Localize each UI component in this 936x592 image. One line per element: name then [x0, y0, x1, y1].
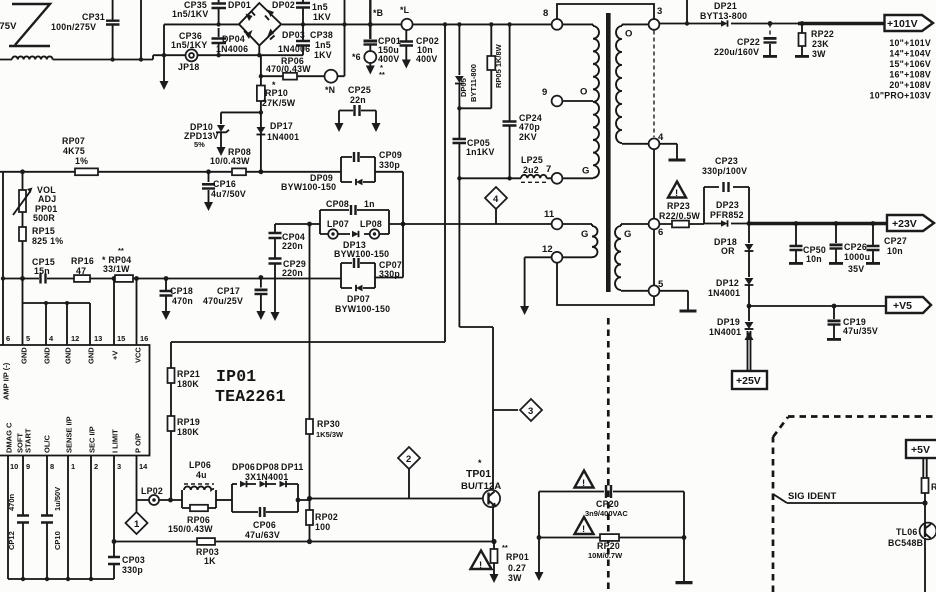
svg-text:3: 3: [528, 406, 533, 417]
svg-text:DP02: DP02: [272, 0, 295, 10]
svg-text:400V: 400V: [416, 54, 438, 64]
svg-text:LP06: LP06: [189, 460, 211, 470]
svg-text:33/1W: 33/1W: [103, 264, 130, 274]
terminal pin 12: [552, 252, 563, 263]
svg-text:3X1N4001: 3X1N4001: [245, 472, 289, 482]
svg-text:22n: 22n: [350, 95, 366, 105]
wire LP06 to DP06: [216, 499, 232, 501]
dashed link pin3-pin4: [653, 31, 655, 138]
svg-text:CP16: CP16: [213, 179, 236, 189]
svg-text:1KV: 1KV: [313, 12, 331, 22]
svg-text:**: **: [502, 543, 508, 552]
svg-text:RP05 1K/8W: RP05 1K/8W: [494, 43, 503, 88]
svg-text:RP22: RP22: [811, 29, 834, 39]
resistor RP01: [493, 542, 495, 576]
svg-text:100: 100: [315, 522, 330, 532]
diode DP19: [748, 306, 750, 321]
wire collector path: [459, 178, 493, 489]
wire main B+ rail node x344: [342, 22, 346, 26]
svg-text:4u: 4u: [196, 470, 207, 480]
resistor RP06b: [190, 505, 208, 511]
svg-text:BYW100-150: BYW100-150: [335, 304, 390, 314]
diode DP09: [356, 179, 363, 185]
wire pin12 under-loop to pin5: [557, 263, 654, 305]
transformer core: [606, 13, 611, 292]
svg-text:3n9/400VAC: 3n9/400VAC: [585, 509, 628, 518]
svg-text:RP02: RP02: [315, 512, 338, 522]
svg-text:START: START: [24, 428, 33, 453]
boundary dashed: [772, 437, 775, 592]
svg-text:470n: 470n: [172, 296, 193, 306]
resistor RP21: [170, 342, 172, 416]
svg-text:1n: 1n: [364, 199, 375, 209]
svg-text:RP20: RP20: [597, 541, 620, 551]
svg-text:OR: OR: [721, 246, 735, 256]
svg-text:27K/5W: 27K/5W: [262, 98, 296, 108]
svg-text:14"+104V: 14"+104V: [889, 49, 931, 59]
box CP07/DP07: [341, 263, 375, 288]
svg-text:RP07: RP07: [62, 136, 85, 146]
svg-text:20"+108V: 20"+108V: [889, 80, 931, 90]
svg-text:G: G: [624, 229, 632, 240]
wire gnd bus bottom: [8, 578, 114, 580]
svg-text:220u/160V: 220u/160V: [714, 47, 759, 57]
svg-text:G: G: [582, 166, 590, 177]
svg-text:23K: 23K: [812, 39, 829, 49]
svg-text:1N4001: 1N4001: [267, 132, 299, 142]
svg-text:47u/63V: 47u/63V: [245, 530, 280, 540]
capacitor CP27: [872, 224, 874, 263]
warning triangle CP20: [575, 471, 594, 488]
svg-text:1K5/3W: 1K5/3W: [316, 430, 344, 439]
svg-text:150/0.43W: 150/0.43W: [168, 524, 213, 534]
svg-text:SEC I/P: SEC I/P: [88, 426, 97, 453]
svg-text:DP07: DP07: [347, 294, 370, 304]
svg-text:CP10: CP10: [53, 531, 62, 550]
svg-text:!: !: [675, 188, 678, 199]
svg-text:RP16: RP16: [71, 256, 94, 266]
connector +101V: [885, 15, 934, 31]
svg-text:825 1%: 825 1%: [32, 236, 63, 246]
svg-text:2KV: 2KV: [519, 132, 537, 142]
wire jumper pin8-pin3: [557, 4, 654, 19]
capacitor CP20: [539, 491, 684, 493]
svg-text:3: 3: [657, 6, 662, 17]
svg-text:10n: 10n: [887, 246, 903, 256]
wire bottom pin stubs: [8, 456, 137, 580]
svg-text:9: 9: [542, 87, 547, 98]
capacitor CP26: [835, 224, 837, 263]
capacitor CP29: [269, 259, 282, 264]
diode DP06: [240, 481, 247, 487]
capacitor CP05: [458, 108, 460, 178]
svg-text:470n: 470n: [7, 493, 16, 511]
wire vertical x141: [140, 0, 142, 60]
wire to +25V: [748, 331, 751, 371]
svg-text:TEA2261: TEA2261: [215, 387, 286, 406]
svg-text:DP04: DP04: [222, 34, 245, 44]
svg-text:4: 4: [493, 194, 499, 205]
resistor RP08: [232, 168, 246, 175]
svg-text:15"+106V: 15"+106V: [889, 59, 931, 69]
svg-text:3: 3: [117, 462, 121, 471]
svg-text:8: 8: [50, 462, 54, 471]
svg-text:180K: 180K: [177, 427, 199, 437]
svg-text:10/0.43W: 10/0.43W: [210, 156, 250, 166]
svg-text:1: 1: [134, 519, 140, 530]
svg-text:CP12: CP12: [7, 531, 16, 550]
svg-text:CP18: CP18: [170, 286, 193, 296]
svg-text:470/0.43W: 470/0.43W: [266, 64, 311, 74]
svg-text:+101V: +101V: [887, 18, 918, 30]
svg-text:0.27: 0.27: [508, 563, 526, 573]
svg-text:CP26: CP26: [844, 242, 867, 252]
capacitor CP50: [795, 224, 797, 263]
svg-text:O: O: [580, 87, 588, 98]
svg-text:CP25: CP25: [348, 85, 371, 95]
svg-text:15: 15: [117, 334, 125, 343]
svg-text:I LIMIT: I LIMIT: [111, 429, 120, 453]
svg-text:CP06: CP06: [253, 520, 276, 530]
IC box IP01: [0, 345, 150, 456]
svg-text:CP03: CP03: [122, 555, 145, 565]
svg-text:CP17: CP17: [217, 286, 240, 296]
resistor RP19: [168, 416, 175, 431]
svg-text:CP38: CP38: [310, 30, 333, 40]
wire hot return x260 chain: [260, 55, 262, 172]
svg-text:11: 11: [544, 209, 555, 220]
svg-text:GND: GND: [64, 347, 73, 364]
svg-text:5%: 5%: [194, 140, 205, 149]
capacitor CP18: [165, 279, 167, 313]
svg-text:220n: 220n: [282, 268, 303, 278]
core isolation dashed: [607, 318, 610, 592]
wire CP20 left leg: [538, 492, 540, 574]
terminal pin 9: [552, 96, 563, 107]
svg-text:14: 14: [139, 462, 148, 471]
svg-text:3W: 3W: [508, 573, 522, 583]
capacitor CP23: [724, 182, 729, 192]
warning triangle RP23: [668, 182, 686, 198]
svg-text:DP01: DP01: [228, 0, 251, 10]
svg-text:RP30: RP30: [317, 419, 340, 429]
potentiometer PP01: [22, 172, 24, 227]
svg-text:CP23: CP23: [715, 156, 738, 166]
svg-text:16: 16: [140, 334, 148, 343]
capacitor CP09: [354, 152, 359, 162]
svg-text:DP12: DP12: [716, 278, 739, 288]
capacitor CP12: [17, 516, 29, 523]
capacitor CP31: [112, 0, 114, 60]
resistor RP16: [74, 275, 90, 282]
filter symbol Z: [9, 4, 50, 46]
svg-text:ADJ: ADJ: [38, 194, 56, 204]
svg-text:330p/100V: 330p/100V: [702, 166, 747, 176]
wire gnd bus: [23, 279, 91, 346]
svg-text:+25V: +25V: [736, 375, 761, 387]
svg-text:+V: +V: [111, 351, 120, 360]
diode DP17: [257, 127, 266, 134]
svg-text:2u2: 2u2: [523, 165, 539, 175]
svg-text:**: **: [379, 70, 385, 79]
wire right bypass x403: [375, 172, 403, 278]
wire pin7 line: [459, 177, 521, 179]
wire +101V rail: [659, 23, 800, 25]
svg-text:GND: GND: [87, 347, 96, 364]
capacitor CP06: [260, 507, 265, 517]
svg-text:R: R: [931, 482, 936, 492]
capacitor CP19: [833, 306, 835, 338]
svg-text:OL/C: OL/C: [43, 435, 52, 453]
transformer secondary winding 3-4: [622, 24, 649, 26]
connector +25V: [732, 371, 767, 389]
capacitor CP35: [218, 0, 220, 37]
svg-text:500R: 500R: [33, 213, 55, 223]
warning triangle RP01: [471, 551, 492, 570]
diode DP05: [458, 24, 460, 108]
node diamond 3: [493, 409, 518, 411]
wire +V5 rail: [747, 304, 752, 309]
svg-text:*N: *N: [325, 85, 335, 95]
svg-text:**: **: [118, 246, 124, 255]
svg-text:+V5: +V5: [893, 300, 912, 312]
svg-text:SIG IDENT: SIG IDENT: [788, 491, 837, 502]
wire SIG IDENT: [773, 494, 925, 503]
resistor RP06 470: [261, 75, 325, 77]
svg-text:13: 13: [94, 334, 102, 343]
diode DP04: [246, 30, 253, 39]
capacitor CP36: [218, 44, 220, 55]
svg-text:RP19: RP19: [177, 417, 200, 427]
resistor RL06: [922, 478, 929, 493]
capacitor CP02: [405, 30, 407, 60]
svg-text:15n: 15n: [34, 266, 50, 276]
capacitor CP24: [509, 24, 511, 178]
wire pin16 stub: [136, 279, 138, 346]
wire pin6 stub: [2, 172, 4, 345]
svg-text:1N4006: 1N4006: [216, 44, 248, 54]
wire long vertical x445: [171, 24, 445, 342]
svg-text:DP19: DP19: [717, 317, 740, 327]
svg-text:6: 6: [658, 227, 663, 238]
ground pin4: [659, 144, 677, 159]
resistor RP23: [672, 221, 689, 228]
svg-text:330p: 330p: [122, 565, 143, 575]
svg-text:180K: 180K: [177, 379, 199, 389]
svg-text:!: !: [582, 524, 585, 535]
node +N: [325, 70, 338, 83]
connector +V5: [886, 297, 931, 313]
svg-text:12: 12: [71, 334, 79, 343]
svg-text:1n5: 1n5: [312, 2, 328, 12]
svg-text:CP08: CP08: [326, 199, 349, 209]
svg-text:1N4001: 1N4001: [709, 327, 741, 337]
resistor RP15: [19, 227, 26, 241]
svg-text:RP01: RP01: [506, 552, 529, 562]
terminal pin 4: [649, 138, 660, 149]
node diamond 4: [485, 187, 507, 209]
svg-text:AMP I/P (-): AMP I/P (-): [2, 362, 11, 400]
capacitor CP07: [354, 258, 359, 268]
svg-text:47: 47: [76, 266, 86, 276]
svg-text:1n1KV: 1n1KV: [466, 147, 495, 157]
bridge rectifier DP01-DP04: [239, 3, 281, 55]
svg-text:2: 2: [406, 454, 411, 465]
diode DP02: [267, 10, 274, 18]
svg-text:10M/0.7W: 10M/0.7W: [588, 551, 623, 560]
box CP08/LP07/LP08: [320, 210, 389, 234]
svg-text:BU/T12A: BU/T12A: [461, 481, 501, 492]
warning triangle RP20: [575, 517, 594, 534]
terminal pin 8: [552, 19, 563, 30]
svg-text:275V: 275V: [0, 21, 17, 32]
svg-text:RP21: RP21: [177, 369, 200, 379]
svg-text:DP08: DP08: [256, 462, 279, 472]
terminal pin 5: [649, 285, 660, 296]
node diamond 2: [398, 447, 420, 469]
wire feedback y278.5: [3, 278, 341, 280]
svg-text:470u/25V: 470u/25V: [203, 296, 243, 306]
wire pin12 to arrow: [525, 257, 552, 307]
svg-text:4: 4: [658, 132, 664, 143]
svg-text:1KV: 1KV: [314, 50, 332, 60]
svg-text:5: 5: [658, 279, 664, 290]
connector +5V: [906, 440, 936, 458]
svg-text:BYW100-150: BYW100-150: [281, 182, 336, 192]
svg-text:DP06: DP06: [232, 462, 255, 472]
svg-text:470p: 470p: [519, 122, 540, 132]
resistor RP02: [309, 499, 311, 542]
capacitor CP08: [351, 205, 356, 215]
box CP09/DP09: [341, 157, 375, 182]
svg-text:1N4001: 1N4001: [708, 288, 740, 298]
capacitor CP15: [41, 274, 46, 284]
svg-text:CP27: CP27: [884, 236, 907, 246]
svg-text:47u/35V: 47u/35V: [843, 326, 878, 336]
terminal pin 6: [649, 219, 660, 230]
capacitor CP17: [260, 278, 262, 313]
svg-text:330p: 330p: [379, 160, 400, 170]
wire AC rail to bridge: [164, 23, 552, 25]
svg-text:1K: 1K: [204, 556, 216, 566]
svg-text:RP23: RP23: [667, 201, 690, 211]
svg-text:TL06: TL06: [896, 527, 918, 537]
resistor RP07: [75, 168, 98, 175]
wire mid rail y224: [275, 224, 552, 313]
svg-text:BYT11-800: BYT11-800: [469, 64, 478, 102]
inductor L (mains choke): [0, 55, 303, 59]
svg-text:LP02: LP02: [141, 486, 163, 496]
svg-text:VCC: VCC: [134, 347, 143, 363]
wire CP20 right leg ground: [683, 492, 685, 582]
svg-text:220n: 220n: [282, 241, 303, 251]
diode DP08: [260, 481, 267, 487]
diode DP23: [721, 220, 728, 226]
svg-text:10"+101V: 10"+101V: [889, 38, 931, 48]
capacitor 1n5/1KV top: [302, 0, 304, 24]
wire pin9 tap: [563, 100, 594, 102]
svg-text:SENSE I/P: SENSE I/P: [65, 416, 74, 453]
wire +23V rail: [659, 223, 704, 225]
wire rail y172: [0, 171, 341, 173]
svg-text:JP18: JP18: [178, 62, 200, 72]
svg-text:2: 2: [94, 462, 98, 471]
ground pin5: [659, 291, 688, 310]
svg-text:5: 5: [26, 334, 30, 343]
svg-text:*: *: [478, 458, 482, 468]
box DP06/DP08/DP11: [232, 484, 298, 512]
svg-text:GND: GND: [20, 347, 29, 364]
wire base line y498.5: [298, 499, 483, 501]
svg-text:9: 9: [26, 462, 30, 471]
capacitor CP22: [769, 24, 771, 37]
svg-text:BYW100-150: BYW100-150: [334, 249, 389, 259]
svg-text:DP11: DP11: [281, 462, 304, 472]
svg-text:DP21: DP21: [714, 1, 737, 11]
svg-text:!: !: [479, 560, 482, 571]
diode DP12: [745, 278, 754, 285]
diode DP18: [748, 224, 750, 278]
transformer winding 11-12: [563, 224, 593, 226]
svg-text:12: 12: [542, 244, 553, 255]
svg-text:O: O: [625, 29, 633, 40]
svg-text:BC548B: BC548B: [888, 538, 923, 548]
svg-text:1n5/1KV: 1n5/1KV: [172, 9, 208, 19]
svg-text:3W: 3W: [812, 49, 826, 59]
svg-text:RP10: RP10: [265, 88, 288, 98]
svg-text:LP25: LP25: [521, 155, 543, 165]
resistor RP30: [309, 224, 311, 499]
svg-text:DP03: DP03: [282, 30, 305, 40]
inductor bead LP08: [370, 229, 380, 239]
diode DP11: [280, 481, 287, 487]
svg-text:DP17: DP17: [270, 121, 293, 131]
terminal pin 7: [552, 173, 563, 184]
wire x164 down with arrow: [163, 24, 165, 82]
box CP23/DP23: [704, 187, 749, 224]
svg-text:4K75: 4K75: [63, 146, 85, 156]
svg-text:1n5/1KY: 1n5/1KY: [171, 40, 207, 50]
resistor RP03: [197, 538, 215, 545]
capacitor CP38: [302, 24, 304, 55]
svg-text:RP15: RP15: [32, 226, 55, 236]
svg-text:CP22: CP22: [737, 37, 760, 47]
svg-text:+5V: +5V: [911, 444, 930, 456]
diode DP01: [246, 14, 253, 22]
svg-text:CP31: CP31: [82, 12, 105, 22]
wire +5V feed: [923, 458, 926, 478]
zener DP10: [221, 112, 261, 148]
connector +23V: [887, 215, 934, 231]
svg-text:16"+108V: 16"+108V: [889, 70, 931, 80]
terminal pin 3: [649, 19, 660, 30]
svg-text:1%: 1%: [75, 156, 88, 166]
inductor LP25: [521, 175, 552, 179]
resistor RP22: [801, 24, 803, 56]
resistor RP04: [115, 275, 133, 282]
svg-text:10: 10: [10, 462, 18, 471]
diode DP07: [356, 285, 363, 291]
terminal pin 11: [552, 219, 563, 230]
svg-text:BYT13-800: BYT13-800: [700, 11, 747, 21]
inductor bead LP07: [328, 229, 338, 239]
svg-text:CP09: CP09: [379, 150, 402, 160]
svg-text:G: G: [581, 229, 589, 240]
wire pin4-pin6 vertical: [653, 149, 655, 285]
transistor TL06: [920, 523, 936, 540]
svg-text:!: !: [582, 478, 585, 489]
resistor RP10: [257, 86, 265, 102]
